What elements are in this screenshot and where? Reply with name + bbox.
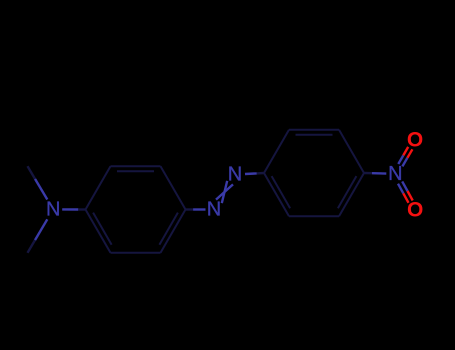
- bond N-CH3 lower methyl: [35, 219, 47, 240]
- azo N1=N2 crossed double bond (unspecified E/Z): [216, 181, 233, 203]
- svg-text:O: O: [407, 199, 423, 222]
- left benzene ring: [86, 166, 186, 253]
- bond amine N to left ring C1: [62, 208, 78, 211]
- svg-text:N: N: [228, 164, 242, 186]
- svg-text:O: O: [407, 128, 423, 151]
- nitro N=O lower double bond: [398, 184, 403, 194]
- nitro N=O upper double bond: [402, 158, 407, 167]
- svg-text:N: N: [46, 198, 60, 220]
- right benzene ring: [264, 130, 364, 217]
- svg-text:N: N: [388, 163, 402, 185]
- bond left ring C4 to azo N1: [186, 208, 194, 210]
- bond N-CH3 upper methyl: [35, 179, 47, 200]
- svg-text:N: N: [207, 199, 221, 221]
- bond right ring C4 to nitro N: [364, 172, 372, 175]
- bond azo N2 to right ring C1: [245, 172, 257, 175]
